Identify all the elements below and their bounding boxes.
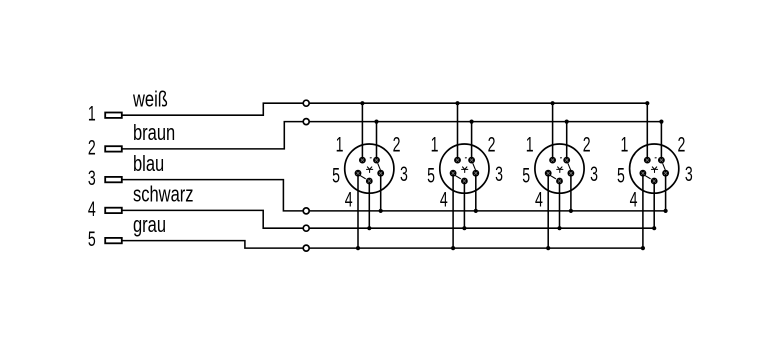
svg-text:2: 2 bbox=[677, 133, 685, 156]
junction dots on schwarz bus (pin 4 taps) bbox=[367, 226, 656, 230]
connector X3 link pin2-pin3 bbox=[568, 163, 571, 170]
svg-text:3: 3 bbox=[88, 166, 96, 189]
connector X4 pin 1 pad bbox=[644, 157, 651, 164]
junction dots on weiß bus (pin 1 taps) bbox=[360, 101, 649, 105]
wire bus 5 (grau) to connectors bbox=[306, 173, 643, 248]
connector X1 link pin5-pin4 bbox=[360, 175, 366, 179]
connector X1 pin 3 pad bbox=[377, 170, 384, 177]
wire 4 (schwarz) from terminal 4 to node 4 bbox=[122, 210, 306, 228]
connector X3 pin 4 pad bbox=[556, 178, 563, 185]
svg-text:5: 5 bbox=[332, 164, 340, 187]
node 2 junction circle bbox=[303, 119, 309, 125]
svg-text:3: 3 bbox=[495, 162, 503, 185]
terminal lug 1 bbox=[105, 113, 122, 118]
svg-text:4: 4 bbox=[535, 188, 543, 211]
connector X3 pin 1 pad bbox=[549, 157, 556, 164]
svg-text:2: 2 bbox=[88, 136, 96, 159]
connector X4 orientation tick bbox=[655, 157, 657, 159]
svg-text:4: 4 bbox=[88, 197, 96, 220]
node 1 junction circle bbox=[303, 100, 309, 106]
svg-text:5: 5 bbox=[427, 164, 435, 187]
connector X2 pin 3 pad bbox=[472, 170, 479, 177]
svg-text:3: 3 bbox=[685, 162, 693, 185]
connector X4 body circle bbox=[630, 144, 679, 193]
svg-text:weiß: weiß bbox=[132, 87, 168, 112]
connector X2 pin 1 pad bbox=[454, 157, 461, 164]
connector X4 pin wires bbox=[0, 0, 1, 1]
connector X3 orientation tick bbox=[560, 157, 562, 159]
svg-text:blau: blau bbox=[133, 152, 164, 177]
svg-text:1: 1 bbox=[336, 133, 344, 156]
connector X1 pin 1 pad bbox=[359, 157, 366, 164]
wire bus 3 (blau) to connectors bbox=[306, 173, 665, 211]
connector X4 pin 2 pad bbox=[658, 157, 665, 164]
connector X2 body circle bbox=[440, 144, 489, 193]
terminal lug 4 bbox=[105, 208, 122, 213]
connector X1 pin 5 pad bbox=[355, 170, 362, 177]
svg-text:1: 1 bbox=[431, 133, 439, 156]
connector X3 pin 2 pad bbox=[563, 157, 570, 164]
svg-text:3: 3 bbox=[590, 162, 598, 185]
connector X1 body circle bbox=[345, 144, 394, 193]
svg-text:1: 1 bbox=[620, 133, 628, 156]
terminal lug 2 bbox=[105, 146, 122, 151]
connector X2 pin 4 pad bbox=[461, 178, 468, 185]
svg-text:2: 2 bbox=[583, 133, 591, 156]
connector X2 pin 2 pad bbox=[468, 157, 475, 164]
node 5 junction circle bbox=[303, 245, 309, 251]
connector X1 pin 4 pad bbox=[366, 178, 373, 185]
svg-text:4: 4 bbox=[440, 188, 448, 211]
svg-text:braun: braun bbox=[133, 121, 175, 146]
connector X4 link pin5-pin4 bbox=[645, 175, 651, 179]
svg-text:2: 2 bbox=[393, 133, 401, 156]
svg-text:4: 4 bbox=[345, 188, 353, 211]
connector X2 link pin5-pin4 bbox=[455, 175, 461, 179]
junction dots on grau bus (pin 5 taps) bbox=[356, 246, 645, 250]
svg-text:4: 4 bbox=[630, 188, 638, 211]
svg-text:1: 1 bbox=[526, 133, 534, 156]
svg-text:5: 5 bbox=[88, 227, 96, 250]
node 3 junction circle bbox=[303, 208, 309, 214]
connector X1 pin wires bbox=[358, 103, 381, 248]
connector X4 centre mark bbox=[651, 167, 657, 173]
svg-text:5: 5 bbox=[617, 164, 625, 187]
wire 2 (braun) from terminal 2 to node 2 bbox=[122, 122, 306, 149]
wire 5 (grau) from terminal 5 to node 5 bbox=[122, 241, 306, 249]
connector X4 pin 5 pad bbox=[640, 170, 647, 177]
node 4 junction circle bbox=[303, 225, 309, 231]
terminal lug 5 bbox=[105, 238, 122, 243]
connector X2 orientation tick bbox=[465, 157, 467, 159]
connector X2 centre mark bbox=[462, 167, 468, 173]
wire 1 (weiß) from terminal 1 to node 1 bbox=[122, 103, 306, 115]
connector X3 pin 3 pad bbox=[568, 170, 575, 177]
connector X2 pin 5 pad bbox=[450, 170, 457, 177]
wire bus 4 (schwarz) to connectors bbox=[306, 181, 654, 228]
wire bus 1 (weiß) to connectors bbox=[306, 103, 647, 160]
svg-text:1: 1 bbox=[88, 102, 96, 125]
junction dots on braun bus (pin 2 taps) bbox=[374, 120, 663, 124]
svg-text:schwarz: schwarz bbox=[133, 182, 193, 207]
connector X3 body circle bbox=[535, 144, 584, 193]
connector X4 pin 4 pad bbox=[651, 178, 658, 185]
svg-text:3: 3 bbox=[400, 162, 408, 185]
connector X3 centre mark bbox=[557, 167, 563, 173]
connector X1 centre mark bbox=[367, 167, 373, 173]
connector X3 pin 5 pad bbox=[545, 170, 552, 177]
terminal lug 3 bbox=[105, 177, 122, 182]
connector X2 link pin2-pin3 bbox=[473, 163, 476, 170]
connector X4 pin 3 pad bbox=[662, 170, 669, 177]
connector X3 link pin5-pin4 bbox=[550, 175, 556, 179]
svg-text:2: 2 bbox=[488, 133, 496, 156]
connector X1 pin 2 pad bbox=[373, 157, 380, 164]
connector X2 pin wires bbox=[453, 103, 476, 248]
wire 3 (blau) from terminal 3 to node 3 bbox=[122, 180, 306, 211]
connector X4 link pin2-pin3 bbox=[663, 163, 666, 170]
connector X1 link pin2-pin3 bbox=[378, 163, 381, 170]
connector X3 pin wires bbox=[548, 103, 571, 248]
wire bus 2 (braun) to connectors bbox=[306, 122, 661, 161]
connector X1 orientation tick bbox=[370, 157, 372, 159]
svg-text:grau: grau bbox=[133, 213, 166, 238]
svg-text:5: 5 bbox=[522, 164, 530, 187]
junction dots on blau bus (pin 3 taps) bbox=[379, 209, 668, 213]
